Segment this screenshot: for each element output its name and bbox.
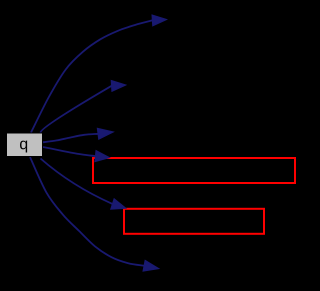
arrowhead edge6 xyxy=(143,260,159,271)
arrowhead edge3 xyxy=(97,128,113,139)
wire edge6 xyxy=(30,157,144,266)
arrowhead edge5 xyxy=(111,199,126,210)
node q xyxy=(7,133,43,157)
wire edge4 xyxy=(43,147,95,156)
arrowhead edge4 xyxy=(95,151,110,162)
arrowhead edge2 xyxy=(111,80,126,91)
node box1 (red) xyxy=(93,158,295,183)
node box2 (red) xyxy=(124,209,264,234)
arrowhead edge1 xyxy=(152,15,167,26)
wire edge2 xyxy=(41,86,112,133)
wire edge5 xyxy=(41,159,113,204)
node q label xyxy=(20,141,27,153)
wire edge1 xyxy=(31,20,152,132)
wire edge3 xyxy=(43,134,98,143)
